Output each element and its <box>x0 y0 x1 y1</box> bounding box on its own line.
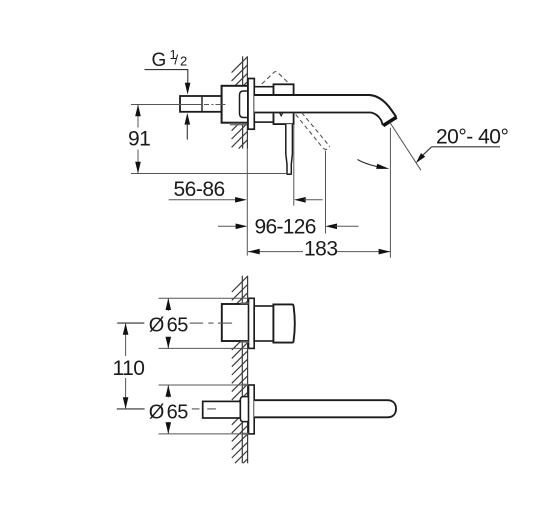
dimension D65 top <box>149 298 249 348</box>
label 20-40 deg <box>416 126 509 164</box>
handle pivot notch <box>280 113 283 116</box>
spout rosette (plate) <box>249 385 255 434</box>
supply elbow (rounded, in wall) <box>240 397 248 422</box>
supply pipe G1/2 tail <box>180 96 222 112</box>
centerline handle axis <box>190 322 232 324</box>
concealed body box <box>222 304 249 341</box>
dimension D65 bottom <box>149 385 249 434</box>
housing extension line (56-86 right) <box>293 124 295 206</box>
angle sweep arc with arrow <box>358 160 390 169</box>
handle rosette (square plate) <box>249 298 255 348</box>
cartridge rounded insert <box>240 91 249 118</box>
svg-text:/: / <box>174 52 178 68</box>
spout outlet face <box>383 117 396 126</box>
lever handle (closed) <box>286 124 293 174</box>
svg-text:183: 183 <box>304 237 338 260</box>
dimension 56-86 <box>169 178 323 203</box>
svg-text:65: 65 <box>167 315 189 337</box>
svg-text:91: 91 <box>128 128 150 151</box>
svg-text:Ø: Ø <box>149 401 165 423</box>
supply pipe centerline / 91 extension <box>131 104 226 106</box>
svg-text:2: 2 <box>180 54 187 69</box>
svg-text:Ø: Ø <box>149 315 165 337</box>
in-wall body <box>222 86 248 123</box>
lever handle open position (dashed) <box>296 113 330 150</box>
spout tip extension line (183 right) <box>389 128 391 258</box>
handle knob <box>273 304 294 342</box>
rosette edge shadows at wall <box>243 384 249 435</box>
spout tube <box>254 95 396 126</box>
svg-text:20°- 40°: 20°- 40° <box>436 126 508 149</box>
wall section bottom (hatched) <box>232 276 248 464</box>
box edge shadows at wall <box>241 302 249 343</box>
open handle tip extension line (96-126 right) <box>325 151 327 234</box>
svg-text:65: 65 <box>167 401 189 423</box>
label G 1/2 <box>145 47 191 140</box>
spout tube (front, rounded end) <box>254 400 396 417</box>
centerline spout axis <box>192 408 216 410</box>
dimension 96-126 <box>218 215 359 238</box>
dashed outline above housing <box>262 72 289 84</box>
svg-text:56-86: 56-86 <box>174 178 225 201</box>
escutcheon plate (side) <box>248 79 254 130</box>
dimension 91 <box>128 105 286 174</box>
dimension 183 <box>248 237 390 260</box>
dimension 110 <box>113 323 145 409</box>
mounting shadow under body <box>230 123 248 126</box>
wall section top (hatched) <box>232 56 248 148</box>
svg-text:110: 110 <box>113 357 145 380</box>
svg-text:G: G <box>152 50 167 71</box>
handle neck <box>254 306 273 341</box>
cartridge housing <box>274 84 294 124</box>
wall face extension line <box>246 149 248 256</box>
svg-text:96-126: 96-126 <box>255 215 316 238</box>
water stream line <box>390 122 421 170</box>
supply stub <box>203 401 241 418</box>
adapter ring <box>254 87 273 122</box>
